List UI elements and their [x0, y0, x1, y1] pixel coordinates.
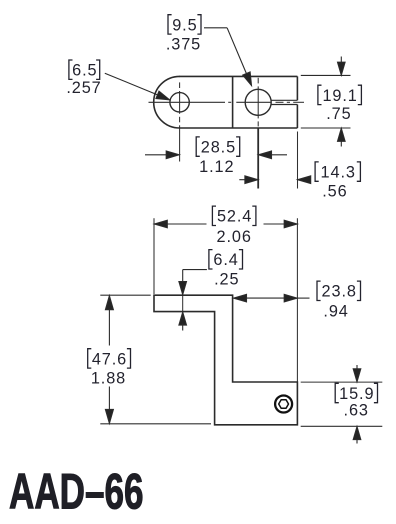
svg-text:15.9: 15.9 — [339, 385, 374, 403]
svg-text:.75: .75 — [326, 105, 351, 123]
svg-text:2.06: 2.06 — [217, 228, 252, 246]
svg-text:6.5: 6.5 — [72, 62, 97, 80]
svg-text:.25: .25 — [214, 271, 239, 289]
svg-text:.375: .375 — [166, 35, 201, 53]
svg-text:AAD–66: AAD–66 — [9, 464, 144, 519]
svg-text:23.8: 23.8 — [322, 283, 357, 301]
svg-text:28.5: 28.5 — [201, 139, 236, 157]
svg-text:1.12: 1.12 — [199, 158, 234, 176]
svg-text:.257: .257 — [66, 79, 101, 97]
svg-text:9.5: 9.5 — [172, 16, 197, 34]
svg-text:6.4: 6.4 — [213, 251, 238, 269]
svg-text:14.3: 14.3 — [321, 164, 356, 182]
svg-text:.56: .56 — [322, 183, 347, 201]
svg-text:19.1: 19.1 — [322, 87, 357, 105]
svg-text:.94: .94 — [323, 302, 348, 320]
svg-text:52.4: 52.4 — [217, 208, 252, 226]
svg-text:1.88: 1.88 — [91, 369, 126, 387]
svg-text:.63: .63 — [344, 402, 369, 420]
svg-text:47.6: 47.6 — [92, 350, 127, 368]
